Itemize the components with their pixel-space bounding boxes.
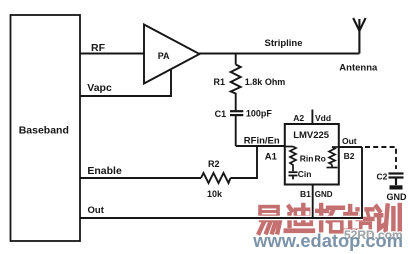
internal wire Ro to B2: [332, 146, 339, 148]
svg-text:PA: PA: [158, 51, 170, 61]
white casing for wires crossing watermark: [250, 200, 363, 218]
wire Out pin: [339, 146, 362, 148]
wire R2 to RFin/En node: [231, 146, 258, 178]
ground bar under C2: [390, 185, 403, 189]
resistor R2: [201, 173, 231, 183]
svg-text:www.edatop.com: www.edatop.com: [252, 230, 403, 251]
dashed wire to C2: [365, 147, 396, 169]
capacitor Cin: [289, 172, 298, 179]
internal wire A1 to Rin: [285, 146, 293, 148]
svg-text:RF: RF: [91, 42, 106, 54]
svg-text:Baseband: Baseband: [19, 125, 69, 137]
svg-text:10k: 10k: [207, 189, 223, 199]
svg-text:RFin/En: RFin/En: [244, 136, 280, 147]
svg-text:R2: R2: [208, 159, 220, 169]
resistor R1: [231, 65, 241, 111]
svg-text:100pF: 100pF: [246, 109, 273, 119]
svg-text:Rin: Rin: [300, 154, 314, 164]
svg-text:1.8k Ohm: 1.8k Ohm: [245, 77, 286, 87]
svg-text:B1: B1: [300, 189, 311, 199]
capacitor C2: [389, 174, 404, 186]
pin B1 GND stub: [312, 185, 314, 219]
internal ground of Ro: [327, 165, 338, 168]
svg-text:LMV225: LMV225: [293, 130, 330, 141]
svg-text:A1: A1: [265, 152, 278, 163]
resistor Rin: [290, 147, 296, 172]
svg-text:Vapc: Vapc: [87, 82, 112, 94]
svg-text:Vdd: Vdd: [315, 113, 331, 123]
svg-text:A2: A2: [293, 113, 304, 123]
svg-text:Out: Out: [342, 136, 357, 146]
wire RF: [80, 53, 144, 55]
pin A2 Vdd stub: [311, 110, 313, 125]
svg-text:GND: GND: [387, 192, 408, 202]
wire stripline: [200, 53, 360, 55]
capacitor C1: [230, 111, 243, 115]
svg-text:Stripline: Stripline: [265, 38, 303, 49]
wire C1 to node: [235, 116, 237, 146]
op-amp PA: [144, 25, 200, 84]
svg-text:Ro: Ro: [315, 154, 326, 164]
wire stripline to R1: [235, 54, 237, 65]
wire Out bottom: [80, 217, 363, 219]
svg-text:Antenna: Antenna: [339, 63, 378, 74]
svg-text:R1: R1: [214, 77, 226, 87]
svg-text:Out: Out: [88, 205, 105, 216]
antenna: [353, 18, 365, 54]
wire Enable: [80, 177, 201, 179]
svg-text:Enable: Enable: [87, 165, 122, 177]
svg-text:C2: C2: [377, 171, 388, 181]
svg-text:Cin: Cin: [298, 169, 312, 179]
IC U1 LMV225: [285, 124, 339, 185]
svg-text:B2: B2: [344, 151, 355, 161]
wire Out vertical: [361, 147, 363, 218]
wire Vapc: [80, 70, 171, 96]
svg-text:C1: C1: [215, 109, 227, 119]
node RFin/En wire: [236, 145, 285, 147]
baseband block: [11, 15, 81, 241]
watermark red characters: [259, 205, 400, 233]
resistor Ro: [329, 147, 335, 165]
svg-text:GND: GND: [315, 190, 333, 199]
